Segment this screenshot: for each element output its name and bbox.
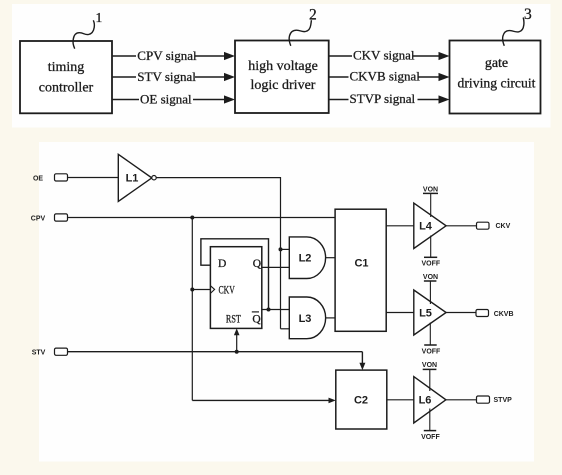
svg-text:STV signal: STV signal (137, 69, 196, 84)
svg-text:OE signal: OE signal (140, 91, 192, 106)
amp L6 (414, 377, 446, 423)
block C2 (336, 370, 387, 429)
svg-text:CKV signal: CKV signal (353, 47, 415, 62)
block C1 (335, 209, 386, 331)
wire: STVP signal with arrowhead and label (329, 91, 450, 106)
wire: L4 output to CKV pad (446, 225, 476, 227)
svg-text:1: 1 (96, 10, 103, 25)
svg-text:VON: VON (423, 274, 438, 281)
wire: STV signal with arrowhead and label (112, 69, 235, 84)
amp L5 (414, 290, 446, 335)
wire: L1 output net (horizontal then vertical) (156, 178, 280, 329)
wire: CPV signal with arrowhead and label (112, 48, 235, 63)
wire: C1 bottom output to L5 (386, 312, 414, 314)
svg-text:CKVB: CKVB (494, 311, 514, 318)
junction dot: STV to RST branch (235, 350, 239, 354)
block: timing controller (20, 41, 112, 113)
wire: branch to L2 upper input (281, 248, 290, 250)
wire: up to RST with arrowhead (234, 328, 240, 351)
svg-text:CPV: CPV (31, 215, 46, 222)
wire: CKVB signal with arrowhead and label (329, 68, 450, 83)
power rail VON (L4) (423, 186, 438, 217)
wire: to C2 left input with arrowhead (192, 398, 335, 404)
power rail VOFF (L4) (421, 236, 440, 268)
wire: feedback Q-bar to D input (201, 239, 269, 310)
svg-text:STVP: STVP (494, 397, 513, 404)
svg-text:CPV signal: CPV signal (137, 48, 197, 63)
svg-text:CKV: CKV (219, 284, 236, 296)
svg-text:controller: controller (39, 81, 94, 96)
svg-text:gate: gate (485, 56, 508, 71)
top figure white panel (12, 4, 551, 128)
svg-text:STVP signal: STVP signal (350, 91, 416, 106)
wire: C1 top output to L4 (386, 225, 414, 227)
svg-text:OE: OE (33, 176, 43, 183)
svg-text:3: 3 (524, 6, 532, 23)
svg-text:VOFF: VOFF (422, 348, 441, 355)
wire: L5 output to CKVB pad (446, 312, 476, 314)
lead line 1 (73, 10, 102, 49)
wire: STV horizontal (68, 351, 363, 353)
power rail VON (L6) (422, 362, 437, 391)
power rail VOFF (L6) (421, 409, 440, 442)
svg-text:high voltage: high voltage (248, 59, 318, 74)
svg-text:driving circuit: driving circuit (458, 75, 536, 90)
svg-text:D: D (218, 258, 226, 270)
svg-text:L6: L6 (419, 395, 432, 407)
D flip-flop (210, 247, 261, 329)
junction dot: L1 net to L2 input (279, 247, 283, 251)
svg-text:VOFF: VOFF (421, 434, 440, 441)
input pad STV (55, 348, 68, 355)
svg-text:STV: STV (32, 350, 46, 357)
amp L4 (414, 203, 446, 248)
and gate L3 (289, 297, 325, 339)
svg-text:CKV: CKV (496, 223, 511, 230)
wire: Q-bar output to L3 upper input (262, 309, 290, 311)
block: gate driving circuit (450, 41, 541, 114)
svg-text:VON: VON (423, 186, 438, 193)
wire: to flip-flop clock input (192, 289, 210, 291)
svg-text:timing: timing (48, 60, 85, 75)
clock wedge (210, 286, 214, 294)
wire: L2 output to C1 (326, 257, 336, 259)
wire: OE pad to L1 input (68, 177, 119, 179)
output pad STVP (477, 396, 490, 403)
wire: STV down into C2 top with arrowhead (359, 352, 365, 370)
svg-text:C2: C2 (354, 395, 368, 407)
svg-text:L4: L4 (419, 221, 433, 233)
input pad CPV (55, 214, 68, 221)
wire: CKV signal with arrowhead and label (329, 47, 450, 62)
pin label Q-bar (252, 312, 262, 326)
buffer L1 with output bubble (118, 154, 156, 201)
svg-text:logic driver: logic driver (251, 78, 316, 93)
junction dot: clock branch (190, 288, 194, 292)
wire: branch to L3 lower input (281, 328, 290, 330)
svg-text:L5: L5 (419, 307, 432, 319)
lead line 2 (289, 7, 317, 46)
svg-text:Q: Q (252, 313, 261, 325)
and gate L2 (289, 237, 325, 279)
lead line 3 (503, 6, 532, 46)
wire: CPV horizontal to C1 (68, 217, 336, 219)
wire: C2 output to L6 (387, 399, 414, 401)
svg-text:VON: VON (422, 362, 437, 369)
block: high voltage logic driver (235, 41, 329, 114)
input pad OE (55, 174, 68, 181)
junction dot: Q-bar feedback branch (267, 308, 271, 312)
junction dot: CPV branch (190, 216, 194, 220)
output pad CKV (477, 222, 490, 229)
wire: CPV vertical down (191, 218, 193, 401)
svg-text:RST: RST (226, 313, 241, 325)
wire: OE signal with arrowhead and label (112, 91, 235, 106)
svg-text:L1: L1 (126, 173, 139, 185)
wire: L3 output to C1 (326, 317, 336, 319)
svg-text:L2: L2 (299, 253, 312, 265)
svg-text:C1: C1 (354, 258, 368, 270)
svg-text:L3: L3 (299, 313, 312, 325)
bottom figure white panel (39, 142, 534, 462)
wire: L6 output to STVP pad (446, 399, 477, 401)
svg-text:CKVB signal: CKVB signal (350, 68, 421, 83)
svg-text:2: 2 (309, 7, 317, 24)
power rail VON (L5) (423, 274, 438, 304)
output pad CKVB (476, 310, 489, 317)
svg-text:Q: Q (253, 258, 262, 270)
wire: Q output to L2 lower input (262, 266, 290, 268)
power rail VOFF (L5) (422, 323, 441, 356)
svg-text:VOFF: VOFF (421, 261, 440, 268)
